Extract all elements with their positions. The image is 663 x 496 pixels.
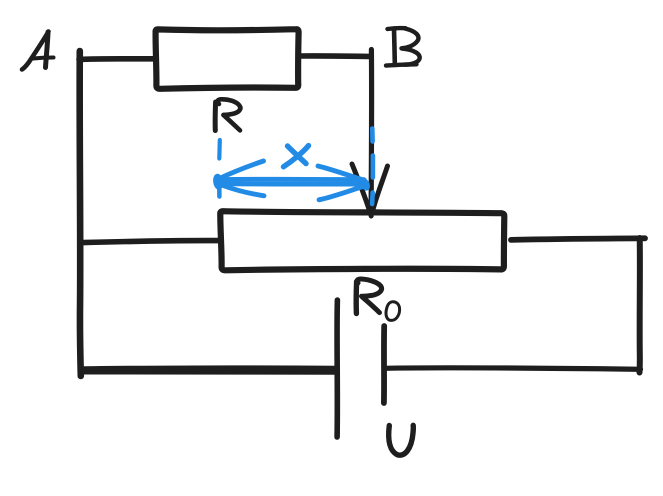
potentiometer R0 wiper arrow [352,164,388,216]
dimension arrow x (double-headed, blue) [217,161,366,200]
label R (resistor value) [215,99,240,130]
blue dashed extension line at wiper [370,129,375,205]
node B label [386,28,420,66]
battery U long plate [334,300,340,437]
resistor R box [156,29,299,89]
potentiometer R0 box [220,211,504,270]
label x (distance) [284,146,309,167]
wire: left side to R0 left terminal [83,241,220,243]
blue dashed extension line at R0 left end [217,140,222,159]
battery U short plate [381,326,387,403]
wire: node A vertical down left side [80,51,81,376]
wire: R0 right terminal to right side [511,238,645,240]
wire: bottom left to battery long plate [81,365,337,371]
wire: right vertical down to battery line [637,238,643,373]
label R0 (potentiometer value) [356,279,399,320]
node A label [22,32,54,70]
wire: node B down to R0 wiper [369,50,375,210]
label U (source voltage) [389,425,414,455]
wire: battery short plate to bottom right [385,368,641,369]
wire: resistor R right terminal to node B [299,53,371,59]
wire: node A to resistor R left terminal [79,56,155,62]
